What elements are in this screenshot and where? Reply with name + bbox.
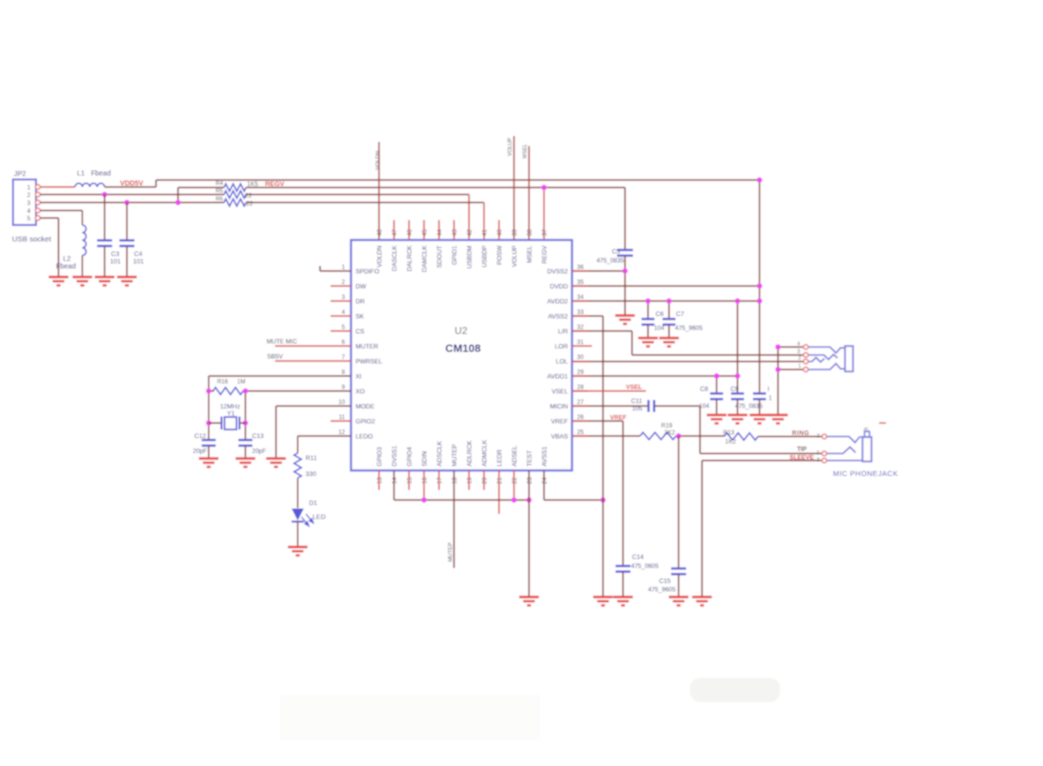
svg-text:AVDD2: AVDD2: [547, 298, 568, 305]
svg-text:ADLRCK: ADLRCK: [467, 440, 474, 467]
svg-text:C4: C4: [134, 251, 143, 258]
svg-text:GPIO1: GPIO1: [451, 245, 458, 265]
svg-text:AVSS2: AVSS2: [548, 313, 569, 320]
svg-text:ADMCLK: ADMCLK: [482, 439, 489, 466]
svg-text:REGV: REGV: [265, 181, 285, 188]
svg-text:R19: R19: [661, 423, 673, 430]
svg-text:REGV: REGV: [541, 245, 548, 264]
svg-text:SLEEVE: SLEEVE: [790, 455, 814, 462]
svg-text:475_0605: 475_0605: [631, 563, 659, 570]
svg-text:2K2: 2K2: [664, 430, 676, 437]
svg-text:TIP: TIP: [797, 446, 807, 453]
svg-text:I: I: [768, 386, 770, 393]
svg-text:5: 5: [27, 215, 31, 222]
svg-text:USBDM: USBDM: [466, 246, 473, 269]
svg-text:VSEL: VSEL: [626, 384, 642, 391]
svg-text:DW: DW: [356, 283, 368, 290]
svg-text:LOL: LOL: [556, 358, 569, 365]
svg-text:SDOUT: SDOUT: [436, 245, 443, 267]
svg-text:USBDP: USBDP: [481, 246, 488, 268]
svg-text:3: 3: [797, 349, 800, 355]
svg-text:R5: R5: [216, 189, 223, 195]
svg-text:VOLDN: VOLDN: [376, 151, 382, 170]
svg-text:JC: JC: [864, 427, 869, 432]
svg-text:L2: L2: [63, 256, 71, 263]
svg-text:DAMCLK: DAMCLK: [421, 245, 428, 272]
svg-text:C15: C15: [659, 578, 671, 585]
svg-text:330: 330: [306, 471, 317, 478]
svg-text:1: 1: [769, 395, 773, 402]
svg-text:41: 41: [483, 229, 489, 236]
svg-text:USB socket: USB socket: [12, 235, 52, 244]
svg-text:C9: C9: [731, 386, 740, 393]
svg-text:SB5V: SB5V: [267, 354, 284, 361]
svg-text:R6: R6: [216, 197, 223, 203]
svg-text:1: 1: [798, 364, 801, 370]
svg-text:C5: C5: [612, 249, 621, 256]
svg-text:MUTEP: MUTEP: [448, 542, 454, 562]
svg-text:R13: R13: [723, 430, 735, 437]
svg-text:37: 37: [543, 229, 549, 236]
svg-text:22: 22: [246, 201, 253, 208]
svg-text:ADSEL: ADSEL: [512, 445, 519, 466]
svg-text:U2: U2: [455, 326, 468, 337]
svg-text:104: 104: [654, 325, 665, 332]
svg-text:DR: DR: [356, 298, 366, 305]
svg-text:Fbead: Fbead: [91, 171, 111, 178]
svg-text:3: 3: [817, 458, 820, 464]
svg-text:C7: C7: [676, 311, 685, 318]
svg-text:ADSCLK: ADSCLK: [437, 440, 444, 466]
svg-text:LED: LED: [313, 514, 326, 521]
svg-text:R4: R4: [216, 181, 224, 187]
svg-text:GPIO3: GPIO3: [377, 447, 384, 467]
svg-text:VOLDN: VOLDN: [376, 245, 383, 267]
svg-text:AVSS1: AVSS1: [542, 446, 549, 467]
svg-text:VREF: VREF: [551, 418, 568, 425]
svg-text:JP2: JP2: [14, 171, 26, 178]
svg-text:12MHz: 12MHz: [220, 404, 240, 411]
svg-text:POSW: POSW: [496, 245, 503, 265]
svg-text:1M: 1M: [237, 380, 245, 386]
svg-text:VBAS: VBAS: [551, 433, 568, 440]
svg-text:C13: C13: [252, 433, 264, 440]
svg-text:C12: C12: [194, 433, 206, 440]
svg-text:C11: C11: [631, 398, 643, 405]
svg-text:MUTEP: MUTEP: [452, 444, 459, 466]
svg-text:R16: R16: [217, 380, 229, 386]
svg-text:VOLUP: VOLUP: [508, 137, 514, 156]
svg-text:VDD5V: VDD5V: [120, 181, 144, 188]
svg-text:2: 2: [27, 192, 31, 199]
svg-text:1: 1: [817, 451, 820, 457]
svg-text:CS: CS: [356, 328, 365, 335]
svg-text:475_9605: 475_9605: [648, 587, 676, 594]
svg-text:22: 22: [245, 193, 252, 200]
svg-text:VSEL: VSEL: [552, 388, 569, 395]
svg-text:VREF: VREF: [610, 415, 627, 422]
svg-text:475_0835: 475_0835: [735, 403, 763, 410]
svg-text:DALRCK: DALRCK: [406, 245, 413, 272]
svg-text:MUTER: MUTER: [356, 343, 379, 350]
svg-text:30: 30: [577, 355, 584, 361]
svg-text:MODE: MODE: [356, 403, 375, 410]
svg-text:MSEL: MSEL: [526, 245, 533, 263]
svg-text:20pF: 20pF: [252, 448, 266, 455]
svg-text:2: 2: [817, 434, 820, 440]
svg-text:1: 1: [27, 184, 31, 191]
svg-text:LEDO: LEDO: [356, 433, 373, 440]
svg-text:MSEL: MSEL: [523, 144, 529, 159]
svg-text:101: 101: [133, 259, 144, 266]
svg-text:20pF: 20pF: [193, 448, 207, 455]
svg-text:C8: C8: [700, 386, 709, 393]
svg-text:C14: C14: [632, 554, 644, 561]
svg-text:DASCLK: DASCLK: [391, 245, 398, 271]
svg-text:101: 101: [110, 259, 121, 266]
svg-text:XO: XO: [356, 388, 365, 395]
svg-text:DVSS2: DVSS2: [547, 268, 568, 275]
svg-text:1K5: 1K5: [247, 181, 259, 188]
svg-text:DVSS1: DVSS1: [392, 445, 399, 466]
svg-text:Y1: Y1: [227, 411, 235, 418]
svg-text:GPIO4: GPIO4: [407, 447, 414, 467]
svg-text:VOLUP: VOLUP: [511, 246, 518, 268]
svg-text:L/R: L/R: [558, 328, 568, 335]
svg-text:SPDIFO: SPDIFO: [356, 268, 380, 275]
svg-text:105: 105: [632, 406, 643, 413]
svg-text:C6: C6: [656, 311, 665, 318]
svg-text:RING: RING: [792, 430, 809, 437]
svg-text:42: 42: [468, 229, 474, 236]
svg-text:MICIN: MICIN: [550, 403, 568, 410]
svg-text:AVDD1: AVDD1: [547, 373, 568, 380]
svg-text:475_9605: 475_9605: [675, 325, 703, 332]
svg-text:LOR: LOR: [555, 343, 569, 350]
svg-text:DVDD: DVDD: [550, 283, 568, 290]
svg-text:C3: C3: [111, 251, 120, 258]
svg-text:L1: L1: [77, 171, 85, 178]
svg-text:2: 2: [798, 356, 801, 362]
svg-text:TEST: TEST: [527, 450, 534, 466]
svg-text:SDIN: SDIN: [422, 451, 429, 467]
svg-text:LEDR: LEDR: [497, 449, 504, 466]
svg-text:D1: D1: [309, 500, 318, 507]
svg-text:1K2: 1K2: [725, 439, 737, 446]
svg-text:MUTE MIC: MUTE MIC: [267, 339, 298, 346]
svg-text:XI: XI: [356, 373, 362, 380]
svg-text:PWRSEL: PWRSEL: [356, 358, 383, 365]
svg-text:4: 4: [27, 208, 31, 215]
svg-text:MIC PHONEJACK: MIC PHONEJACK: [833, 469, 898, 478]
svg-text:R11: R11: [306, 455, 318, 462]
svg-text:475_0835: 475_0835: [596, 258, 624, 265]
svg-text:3: 3: [27, 200, 31, 207]
svg-text:GPIO2: GPIO2: [356, 418, 376, 425]
svg-text:CM108: CM108: [445, 343, 480, 355]
svg-text:SK: SK: [356, 313, 365, 320]
svg-text:4: 4: [797, 342, 800, 348]
